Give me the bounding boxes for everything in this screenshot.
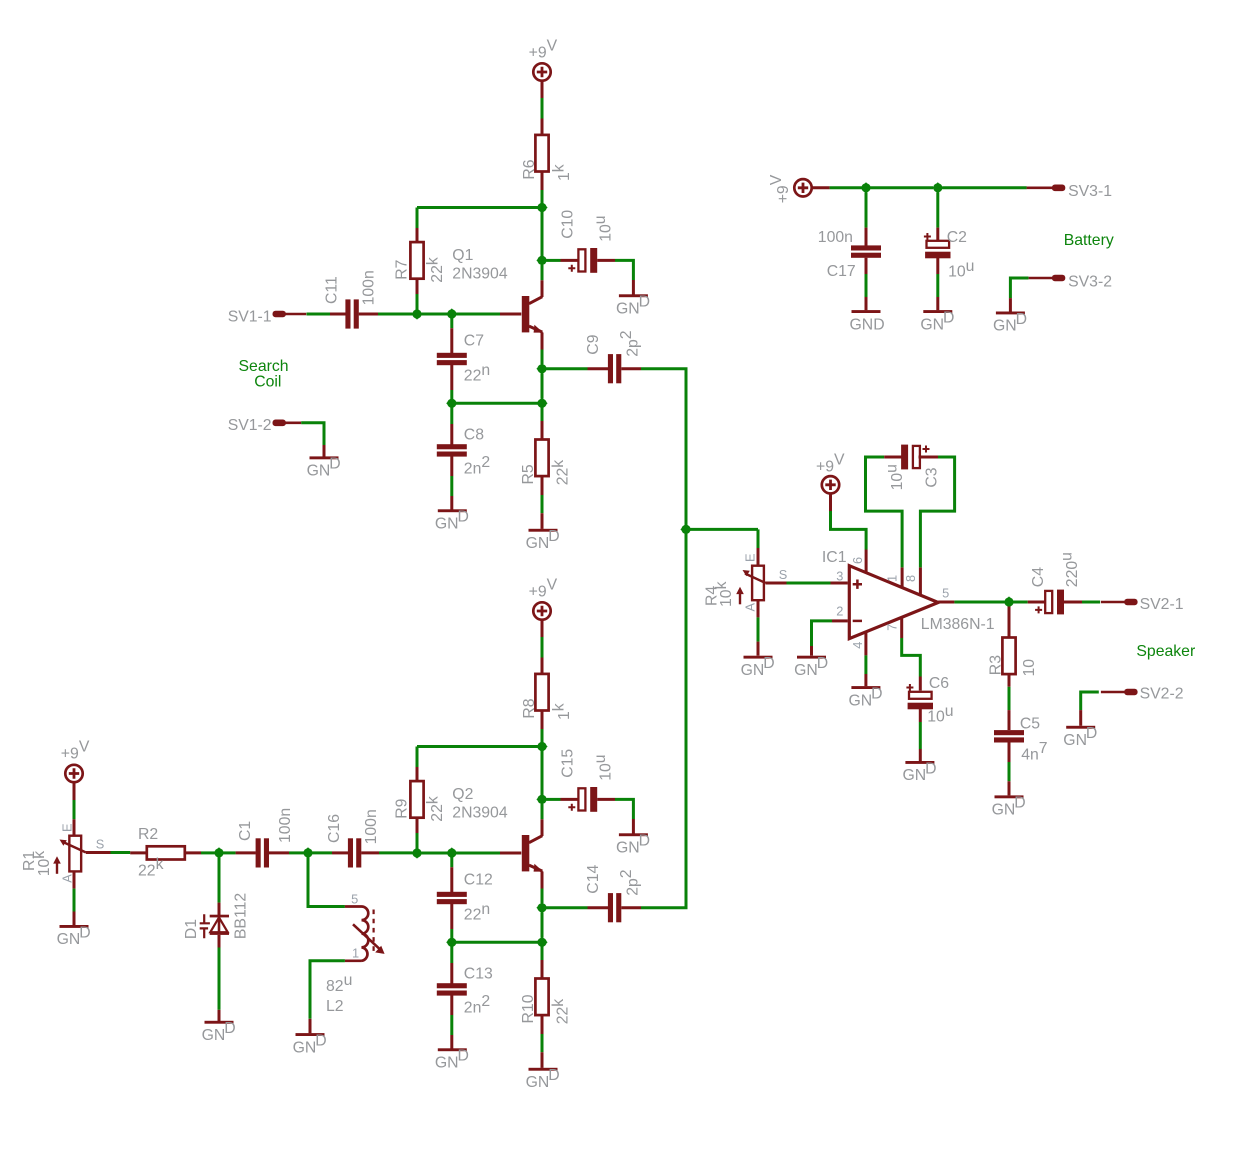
- C15 - pin lead: [597, 798, 615, 801]
- svg-text:C8: C8: [464, 426, 484, 443]
- R6 pin 1 lead: [541, 119, 544, 135]
- wire battery node to SV3-1: [942, 186, 1026, 189]
- op-amp IC1 (LM386N-1): [849, 566, 938, 639]
- wire emitter node to R10: [541, 947, 544, 961]
- wire C2 to ground: [936, 274, 939, 297]
- Q1 collector pin lead: [541, 280, 544, 297]
- wire C17 node to C2 node: [871, 186, 934, 189]
- IC1 pin 8 lead: [919, 567, 922, 595]
- ground pin lead: [865, 297, 868, 310]
- wire IC1 output to node: [954, 601, 1004, 604]
- ground symbol at SV2-2: [1063, 725, 1097, 749]
- svg-text:4: 4: [850, 642, 865, 649]
- +9V pin stub: [829, 494, 832, 512]
- wire R7 to base node: [416, 294, 419, 314]
- junction C1 / L2 node: [302, 847, 313, 858]
- svg-text:Search: Search: [239, 358, 289, 375]
- wire base node to base pin: [456, 852, 500, 855]
- wire output node to C4: [1014, 601, 1028, 604]
- wire +9V to R8: [541, 637, 544, 658]
- svg-text:GN: GN: [794, 662, 818, 679]
- junction mid node (osc1): [446, 398, 457, 409]
- transistor Q2 (2N3904 NPN): [522, 835, 543, 872]
- resistor R2: [147, 846, 185, 859]
- svg-text:SV1-2: SV1-2: [228, 417, 272, 434]
- wire summing node to R4: [686, 528, 758, 531]
- wire L2 pin 1 to ground: [310, 961, 345, 1019]
- wire tap to C10: [547, 259, 561, 262]
- R4 pin E lead: [757, 548, 760, 566]
- svg-text:D: D: [458, 1048, 469, 1065]
- svg-text:D: D: [871, 685, 882, 702]
- junction base node at R9 (osc2): [411, 847, 422, 858]
- junction emitter node (osc2): [536, 937, 547, 948]
- ground symbol at C5: [992, 795, 1026, 819]
- svg-text:2N3904: 2N3904: [452, 804, 508, 821]
- svg-text:100n: 100n: [818, 229, 853, 246]
- ground pin lead: [450, 1035, 453, 1049]
- junction battery node at C2: [932, 182, 943, 193]
- svg-text:3: 3: [836, 568, 843, 583]
- inductor L2 (82u variable): [353, 907, 385, 961]
- wire +9V to IC1 pin 6: [831, 511, 867, 550]
- capacitor C7: [437, 353, 467, 365]
- capacitor C13: [437, 983, 467, 995]
- capacitor C4 (polarized): [1035, 590, 1064, 615]
- R1 wiper pin lead: [86, 851, 111, 854]
- C12 pin 2 lead: [450, 903, 453, 929]
- svg-text:D: D: [315, 1032, 326, 1049]
- svg-text:100n: 100n: [277, 808, 294, 843]
- wire to collector node: [541, 190, 544, 208]
- svg-text:S: S: [96, 836, 105, 851]
- C10 - pin lead: [597, 259, 615, 262]
- svg-text:D: D: [639, 833, 650, 850]
- potentiometer R4 (10k trimmer): [736, 566, 765, 605]
- junction mid node (osc2): [446, 937, 457, 948]
- C9 pin 1 lead: [588, 367, 609, 370]
- capacitor C2 (polarized): [924, 233, 951, 258]
- svg-text:GN: GN: [616, 840, 640, 857]
- ground pin lead: [323, 445, 326, 457]
- junction base / C7 node: [446, 308, 457, 319]
- capacitor C12: [437, 892, 467, 904]
- +9V pin stub: [541, 620, 544, 637]
- ground symbol at D1: [202, 1020, 236, 1044]
- svg-text:GN: GN: [202, 1027, 226, 1044]
- svg-text:L2: L2: [326, 998, 344, 1015]
- wire emitter node to R5: [541, 408, 544, 422]
- R3 pin 2 lead: [1008, 674, 1011, 687]
- C8 pin 1 lead: [450, 424, 453, 445]
- svg-text:SV3-2: SV3-2: [1068, 273, 1112, 290]
- svg-text:C7: C7: [464, 332, 484, 349]
- wire C1 to L2 node: [289, 851, 304, 854]
- wire collector node down: [541, 212, 544, 260]
- R5 pin 2 lead: [541, 476, 544, 495]
- svg-text:GN: GN: [993, 318, 1017, 335]
- junction collector feed node (osc2): [536, 741, 547, 752]
- junction output node: [1003, 596, 1014, 607]
- IC1 pin 5 lead: [938, 601, 954, 604]
- R8 pin 2 lead: [541, 711, 544, 730]
- C11 pin 2 lead: [359, 313, 378, 316]
- wire C7 to mid node: [450, 390, 453, 403]
- C5 pin 2 lead: [1008, 743, 1011, 763]
- svg-text:R7: R7: [394, 260, 411, 280]
- C9 pin 2 lead: [621, 367, 641, 370]
- +9V supply symbol (IC1): [822, 476, 839, 493]
- C10 + pin lead: [561, 259, 579, 262]
- svg-text:GN: GN: [435, 516, 459, 533]
- wire C16 to base node: [379, 851, 413, 854]
- R6 pin 2 lead: [541, 172, 544, 191]
- C7 pin 2 lead: [450, 364, 453, 390]
- R4 pin A lead: [757, 600, 760, 617]
- C14 pin 2 lead: [621, 906, 641, 909]
- svg-text:GN: GN: [526, 535, 550, 552]
- +9V pin stub: [541, 81, 544, 98]
- wire collector node down: [541, 751, 544, 799]
- junction collector / C15 tap: [536, 794, 547, 805]
- wire node to C1: [224, 851, 236, 854]
- svg-text:7: 7: [884, 624, 899, 631]
- wire C4 to SV2-1: [1082, 601, 1100, 604]
- ground symbol at C6: [903, 760, 937, 784]
- svg-text:R2: R2: [138, 826, 158, 843]
- ground symbol at C2: [920, 309, 954, 333]
- capacitor C9: [608, 354, 621, 383]
- capacitor C15 (polarized): [568, 787, 597, 812]
- ground pin lead: [73, 912, 76, 926]
- IC1 pin 3 lead: [831, 582, 848, 585]
- Q1 emitter pin lead: [541, 333, 544, 350]
- R7 pin 1 lead: [416, 228, 419, 243]
- C17 pin 2 lead: [865, 258, 868, 274]
- wire to R4 pin E: [757, 529, 760, 548]
- connector pin SV1-2: [273, 420, 302, 427]
- svg-text:GN: GN: [1063, 732, 1087, 749]
- wire between base junctions: [422, 313, 448, 316]
- C7 pin 1 lead: [450, 328, 453, 354]
- C16 pin 2 lead: [361, 851, 379, 854]
- ground symbol at C8: [435, 509, 469, 533]
- wire +9V to R6: [541, 98, 544, 119]
- connector pin SV3-2: [1029, 275, 1066, 282]
- +9V pin stub: [812, 186, 830, 189]
- ground symbol at IC1 pin 4: [849, 685, 883, 709]
- capacitor C11: [345, 299, 358, 328]
- svg-text:6: 6: [850, 557, 865, 564]
- wire IC1 pin 2 to ground: [812, 621, 833, 646]
- wire D1 to ground: [218, 948, 221, 1010]
- svg-text:SV1-1: SV1-1: [228, 308, 272, 325]
- wire C13 to ground: [450, 1015, 453, 1035]
- capacitor C5: [994, 730, 1024, 742]
- ground pin lead: [309, 1019, 312, 1034]
- resistor R3: [1002, 638, 1015, 675]
- C16 pin 1 lead: [332, 851, 348, 854]
- resistor R7: [410, 242, 423, 279]
- svg-text:R9: R9: [394, 798, 411, 818]
- R5 pin 1 lead: [541, 421, 544, 440]
- wire node down to C2: [936, 192, 939, 227]
- +9V supply symbol (R1): [65, 765, 82, 782]
- ground pin lead: [632, 819, 635, 834]
- svg-text:LM386N-1: LM386N-1: [921, 616, 995, 633]
- svg-text:D: D: [763, 655, 774, 672]
- svg-text:GN: GN: [526, 1074, 550, 1091]
- resistor R10: [535, 979, 548, 1016]
- connector pin SV3-1: [1027, 185, 1066, 192]
- wire R4 wiper to IC1 input: [787, 582, 831, 585]
- C1 pin 2 lead: [269, 851, 289, 854]
- ground pin lead: [1008, 781, 1011, 795]
- C13 pin 1 lead: [450, 963, 453, 984]
- wire R9 to base node: [416, 833, 419, 853]
- svg-text:5: 5: [351, 891, 358, 906]
- svg-text:2N3904: 2N3904: [452, 265, 508, 282]
- ground symbol at L2: [293, 1032, 327, 1056]
- ground pin lead: [864, 674, 867, 686]
- ground symbol at C17 (GND): [850, 310, 885, 333]
- svg-text:D: D: [79, 924, 90, 941]
- ground symbol at R10: [526, 1067, 560, 1091]
- ground symbol at SV3-2: [993, 311, 1027, 335]
- svg-text:C12: C12: [464, 871, 493, 888]
- resistor R8: [535, 674, 548, 711]
- wire C5 to ground: [1008, 762, 1011, 781]
- svg-text:GN: GN: [57, 931, 81, 948]
- R10 pin 1 lead: [541, 960, 544, 979]
- svg-text:Q1: Q1: [452, 247, 473, 264]
- svg-text:C9: C9: [585, 334, 602, 354]
- Q2 emitter pin lead: [541, 872, 544, 889]
- svg-text:GN: GN: [307, 463, 331, 480]
- capacitor C6 (polarized): [906, 684, 933, 709]
- capacitor C16: [348, 838, 361, 867]
- D1 anode pin lead: [218, 935, 221, 948]
- svg-text:D: D: [224, 1020, 235, 1037]
- wire IC1 pin 1 to C3: [866, 457, 903, 567]
- svg-text:1: 1: [884, 575, 899, 582]
- R7 pin 2 lead: [416, 278, 419, 294]
- wire R2 to node: [201, 851, 215, 854]
- R9 pin 2 lead: [416, 817, 419, 833]
- capacitor C8: [437, 444, 467, 456]
- C13 pin 2 lead: [450, 995, 453, 1016]
- IC1 pin 2 lead: [832, 619, 848, 622]
- wire tap to C15: [547, 798, 561, 801]
- svg-text:IC1: IC1: [822, 549, 847, 566]
- svg-text:E: E: [60, 823, 75, 832]
- wire node down to L2 pin 5: [308, 857, 345, 907]
- C4 pin + lead: [1028, 601, 1046, 604]
- ground pin lead: [1009, 298, 1012, 312]
- svg-text:C14: C14: [585, 865, 602, 894]
- svg-text:1: 1: [352, 946, 359, 961]
- connector pin SV2-2: [1101, 689, 1138, 696]
- svg-text:GN: GN: [920, 316, 944, 333]
- wire between base junctions: [422, 852, 448, 855]
- svg-text:Speaker: Speaker: [1136, 643, 1195, 660]
- svg-text:GN: GN: [992, 802, 1016, 819]
- wire mid node down to C13: [450, 947, 453, 964]
- svg-text:C17: C17: [827, 263, 856, 280]
- C6 pin - lead: [919, 709, 922, 723]
- C15 + pin lead: [561, 798, 579, 801]
- svg-text:GN: GN: [616, 301, 640, 318]
- C17 pin 1 lead: [865, 228, 868, 246]
- svg-text:A: A: [742, 603, 757, 612]
- svg-text:100n: 100n: [363, 809, 380, 844]
- L2 pin 5 lead: [345, 905, 362, 908]
- wire collector node to R7: [417, 206, 542, 209]
- svg-text:GN: GN: [741, 662, 765, 679]
- svg-text:D: D: [943, 309, 954, 326]
- wire mid node to emitter node: [452, 402, 542, 405]
- resistor R5: [535, 440, 548, 477]
- IC1 pin 4 lead: [864, 632, 867, 656]
- svg-text:C11: C11: [324, 276, 341, 304]
- wire base node down to C7: [450, 318, 453, 328]
- wire down to R9: [416, 747, 419, 768]
- resistor R9: [410, 781, 423, 818]
- C4 pin - lead: [1064, 601, 1083, 604]
- svg-text:A: A: [60, 874, 75, 883]
- wire collector node to R9: [417, 745, 542, 748]
- capacitor C1: [256, 838, 269, 867]
- +9V supply symbol (battery): [794, 179, 811, 196]
- diode D1 (BB112 varactor): [200, 914, 229, 938]
- C12 pin 1 lead: [450, 867, 453, 893]
- junction emitter / C9 tap: [536, 363, 547, 374]
- ground symbol at SV1-2: [307, 456, 341, 480]
- wire SV1-2 to ground: [301, 423, 324, 445]
- svg-text:D: D: [817, 655, 828, 672]
- svg-text:GN: GN: [293, 1039, 317, 1056]
- C6 pin + lead: [919, 677, 922, 691]
- C3 pin - lead: [884, 456, 902, 459]
- svg-text:SV2-1: SV2-1: [1140, 596, 1184, 613]
- transistor Q1 (2N3904 NPN): [522, 296, 543, 333]
- svg-text:C13: C13: [464, 965, 493, 982]
- svg-text:GND: GND: [850, 316, 885, 333]
- svg-text:C2: C2: [947, 229, 967, 246]
- wire +9V to C17 node: [830, 186, 862, 189]
- wire R1 to ground: [73, 889, 76, 912]
- wire tap to C9: [547, 367, 588, 370]
- wire SV1-1 to C11: [307, 313, 331, 316]
- IC1 pin 7 lead: [900, 617, 903, 638]
- ground pin lead: [632, 280, 635, 295]
- ground pin lead: [919, 749, 922, 761]
- junction collector feed node (osc1): [536, 202, 547, 213]
- ground symbol at R4: [741, 655, 775, 679]
- Q2 base pin lead: [500, 852, 521, 855]
- svg-text:C3: C3: [924, 467, 941, 487]
- wire down to R7: [416, 208, 419, 229]
- R8 pin 1 lead: [541, 658, 544, 674]
- svg-text:D: D: [1014, 795, 1025, 812]
- capacitor C10 (polarized): [568, 248, 597, 273]
- svg-text:R10: R10: [520, 994, 537, 1023]
- ground symbol at C13: [435, 1048, 469, 1072]
- wire tap to C14: [547, 906, 588, 909]
- +9V pin stub: [73, 782, 76, 800]
- wire to collector pin: [541, 804, 544, 819]
- wire C11 to base node: [378, 313, 413, 316]
- wire R1 wiper to R2: [111, 851, 131, 854]
- ground pin lead: [757, 642, 760, 656]
- C8 pin 2 lead: [450, 456, 453, 477]
- C14 pin 1 lead: [588, 906, 609, 909]
- Q2 collector pin lead: [541, 819, 544, 836]
- svg-text:SV3-1: SV3-1: [1068, 183, 1112, 200]
- svg-text:SV2-2: SV2-2: [1140, 686, 1184, 703]
- wire output tap to mid node: [541, 912, 544, 938]
- wire C6 to ground: [919, 722, 922, 749]
- C2 pin - lead: [936, 258, 939, 275]
- wire C10 to ground: [615, 260, 633, 280]
- wire to collector pin: [541, 265, 544, 280]
- wire emitter to output tap: [541, 889, 544, 904]
- R2 pin 2 lead: [185, 851, 201, 854]
- svg-text:C10: C10: [559, 210, 576, 239]
- svg-text:C5: C5: [1020, 715, 1040, 732]
- wire C8 to ground: [450, 476, 453, 496]
- svg-text:100n: 100n: [361, 270, 378, 305]
- wire R4 to ground: [757, 617, 760, 641]
- wire mid node to emitter node: [452, 941, 542, 944]
- resistor R6: [535, 135, 548, 172]
- wire mid node down to C8: [450, 408, 453, 425]
- wire base node to base pin: [456, 313, 500, 316]
- junction base / C12 node: [446, 847, 457, 858]
- IC1 pin 1 lead: [901, 567, 904, 587]
- wire node down to C17: [865, 192, 868, 227]
- svg-text:C15: C15: [559, 749, 576, 778]
- wire base node down to C12: [450, 857, 453, 867]
- wire SV3-2 to ground: [1010, 278, 1028, 298]
- svg-text:S: S: [779, 567, 788, 582]
- R9 pin 1 lead: [416, 767, 419, 782]
- svg-text:D1: D1: [183, 919, 200, 939]
- wire R3 to C5: [1008, 687, 1011, 710]
- D1 cathode pin lead: [218, 903, 221, 915]
- svg-text:GN: GN: [849, 692, 873, 709]
- ground symbol at R5: [526, 528, 560, 552]
- Q1 base pin lead: [500, 313, 521, 316]
- wire node to C16: [313, 851, 333, 854]
- wire +9V to R1: [73, 800, 76, 819]
- ground pin lead: [810, 646, 813, 656]
- wire emitter to output tap: [541, 350, 544, 365]
- wire C3 to IC1 pin 8: [920, 457, 954, 567]
- capacitor C3 (polarized): [901, 445, 929, 470]
- svg-text:C16: C16: [326, 814, 343, 843]
- svg-text:R6: R6: [521, 159, 538, 179]
- junction base node at R7 (osc1): [411, 308, 422, 319]
- wire IC1 pin 7 to C6: [902, 638, 921, 677]
- svg-text:Q2: Q2: [452, 786, 473, 803]
- junction summing net to detector: [680, 524, 691, 535]
- svg-text:E: E: [742, 553, 757, 562]
- svg-text:R8: R8: [521, 698, 538, 718]
- svg-text:D: D: [548, 1067, 559, 1084]
- svg-text:D: D: [458, 509, 469, 526]
- wire to collector node: [541, 729, 544, 747]
